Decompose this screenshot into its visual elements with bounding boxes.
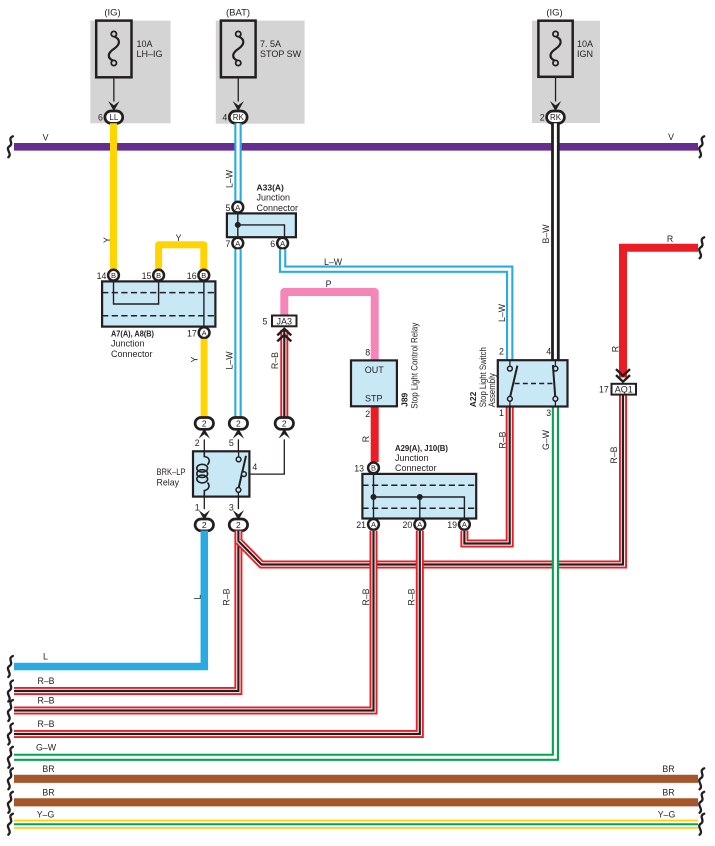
wire Y-G bus	[14, 820, 698, 829]
svg-text:R–B: R–B	[609, 446, 619, 463]
svg-text:B: B	[111, 271, 116, 280]
svg-text:JA3: JA3	[277, 316, 293, 326]
A22 mechanical link dashed	[515, 383, 554, 385]
svg-text:G–W: G–W	[541, 429, 551, 450]
arrow into pin4 oval	[279, 428, 290, 438]
svg-text:Y–G: Y–G	[37, 809, 55, 819]
chevron into AQ1	[616, 375, 630, 382]
fuse 10A IGN (IG)	[532, 21, 600, 123]
svg-text:(IG): (IG)	[104, 8, 120, 19]
squiggle R-B2 left	[8, 700, 13, 721]
svg-text:BR: BR	[42, 788, 54, 798]
svg-text:R–B: R–B	[37, 696, 54, 706]
svg-text:Stop Light Control Relay: Stop Light Control Relay	[410, 322, 420, 408]
node oval 2 (pin3 bottom)	[229, 519, 247, 531]
svg-text:A: A	[235, 239, 240, 248]
squiggle BR2 right	[699, 792, 704, 813]
connector AQ1 box	[612, 384, 637, 395]
svg-text:17: 17	[599, 385, 609, 395]
svg-text:1: 1	[195, 502, 200, 512]
svg-text:Assembly: Assembly	[487, 373, 497, 407]
svg-text:(IG): (IG)	[546, 8, 562, 19]
wire V bus (violet)	[14, 143, 698, 151]
svg-text:Y–G: Y–G	[658, 809, 676, 819]
svg-text:21: 21	[356, 520, 366, 530]
BRK-LP coil	[204, 451, 209, 465]
svg-text:3: 3	[546, 408, 551, 418]
svg-text:(BAT): (BAT)	[226, 8, 250, 19]
terminal 20(A) of A29	[414, 519, 425, 530]
svg-text:R–B: R–B	[270, 352, 280, 369]
wire P: JA3 to J89 pin 8	[284, 292, 374, 360]
svg-text:BRK–LP: BRK–LP	[157, 467, 186, 477]
A7/A8 internal dashed lines	[102, 292, 215, 294]
wire R: right bus to AQ1	[623, 248, 698, 378]
wire R: J89 STP to A29 13(B)	[371, 406, 379, 462]
svg-text:Y: Y	[102, 237, 112, 243]
svg-text:2: 2	[202, 419, 207, 429]
wire Y bridge 15(B) to 16(B)	[159, 245, 204, 270]
svg-text:14: 14	[97, 271, 107, 281]
wire Y: A8 17(A) to BRK-LP pin 2	[201, 339, 208, 418]
node oval 2 (pin4 top)	[275, 418, 293, 430]
wire R-B: A29 20(A) to bottom bus	[14, 531, 420, 734]
wire R-B: JA3 to BRK-LP pin 4 oval	[280, 330, 288, 418]
svg-text:Relay: Relay	[157, 478, 180, 488]
svg-text:A: A	[462, 520, 467, 529]
svg-text:R–B: R–B	[37, 676, 54, 686]
svg-text:2: 2	[540, 113, 545, 123]
terminal 16(B) of A7	[198, 270, 209, 281]
squiggle BR1 left	[8, 768, 13, 789]
svg-text:Junction: Junction	[395, 453, 429, 463]
svg-text:R–B: R–B	[498, 431, 508, 448]
junction connector A29(A),J10(B) box	[362, 474, 476, 519]
svg-text:19: 19	[447, 520, 457, 530]
svg-text:A33(A): A33(A)	[257, 183, 285, 193]
svg-text:8: 8	[365, 347, 370, 357]
wire pin1 to oval	[203, 497, 205, 510]
svg-text:L–W: L–W	[225, 351, 235, 370]
squiggle G-W left	[8, 747, 13, 768]
svg-text:A: A	[202, 329, 207, 338]
svg-text:Junction: Junction	[111, 339, 145, 349]
squiggle R-B3 left	[8, 724, 13, 745]
wire L-W: A33 6(A) to A22 pin 2	[283, 249, 510, 360]
svg-text:13: 13	[354, 464, 364, 474]
terminal 17(A) of A8	[199, 327, 210, 338]
svg-text:2: 2	[195, 438, 200, 448]
wire BR bus 2	[14, 798, 698, 806]
svg-text:Connector: Connector	[111, 349, 153, 359]
wire R-B: BRK-LP pin3 to bottom bus	[14, 531, 238, 691]
wire BR bus 1	[14, 775, 698, 783]
svg-text:L–W: L–W	[225, 169, 235, 188]
svg-text:Connector: Connector	[257, 203, 299, 213]
svg-text:10A: 10A	[577, 39, 593, 49]
terminal 15(B) of A7	[153, 270, 164, 281]
svg-text:R–B: R–B	[222, 588, 232, 605]
svg-text:L–W: L–W	[324, 257, 343, 267]
svg-text:2: 2	[365, 409, 370, 419]
connector JA3 box	[272, 316, 297, 327]
svg-text:V: V	[668, 132, 674, 142]
A29 internal bus	[373, 474, 375, 519]
svg-text:B: B	[371, 464, 376, 473]
squiggle V right	[699, 136, 704, 157]
svg-text:RK: RK	[233, 113, 245, 122]
wire B-W: fuse IGN to A22 pin 4	[551, 123, 560, 360]
svg-text:5: 5	[229, 438, 234, 448]
svg-text:5: 5	[225, 203, 230, 213]
svg-text:2: 2	[499, 346, 504, 356]
svg-text:A: A	[235, 203, 240, 212]
svg-text:L: L	[193, 594, 203, 599]
A7/A8 internal bus 16-17	[203, 281, 205, 326]
svg-text:R–B: R–B	[37, 719, 54, 729]
squiggle V left	[8, 136, 13, 157]
terminal 7(A) of A33	[232, 238, 243, 249]
A7/A8 internal bus 14-15	[114, 281, 159, 304]
relay BRK-LP box	[193, 451, 249, 496]
svg-text:B: B	[201, 271, 206, 280]
svg-text:LH–IG: LH–IG	[137, 49, 163, 59]
svg-text:Junction: Junction	[257, 193, 291, 203]
svg-text:Connector: Connector	[395, 463, 437, 473]
squiggle BR1 right	[699, 768, 704, 789]
svg-text:R–B: R–B	[361, 588, 371, 605]
svg-text:6: 6	[98, 113, 103, 123]
A33 internal bus	[237, 213, 239, 237]
wire pin3 to oval	[237, 497, 239, 510]
svg-text:1: 1	[499, 408, 504, 418]
node oval 2 (pin5 top)	[229, 418, 247, 430]
svg-text:Y: Y	[189, 356, 199, 362]
BRK-LP switch	[238, 451, 240, 457]
terminal 14(B) of A7	[108, 270, 119, 281]
svg-text:2: 2	[202, 520, 207, 530]
squiggle Y-G left	[8, 814, 13, 835]
svg-text:B–W: B–W	[541, 224, 551, 244]
svg-text:2: 2	[282, 419, 287, 429]
wire R-B: branch to AQ1	[238, 395, 623, 564]
arrow into pin2 oval	[199, 428, 210, 438]
svg-text:AQ1: AQ1	[615, 385, 633, 395]
svg-text:BR: BR	[662, 788, 674, 798]
svg-text:STOP SW: STOP SW	[260, 49, 302, 59]
A22 left switch	[509, 360, 511, 366]
svg-text:L–W: L–W	[497, 303, 507, 322]
svg-text:4: 4	[222, 113, 227, 123]
squiggle R-B1 left	[8, 681, 13, 702]
svg-text:OUT: OUT	[365, 365, 385, 375]
svg-text:Y: Y	[176, 233, 182, 243]
svg-text:10A: 10A	[137, 39, 153, 49]
wire Y: fuse LH-IG to A7 14(B)	[110, 123, 117, 269]
terminal 21(A) of A29	[368, 519, 379, 530]
wire L-W: fuse STOP SW to A33 5(A)	[234, 123, 241, 201]
svg-text:20: 20	[403, 520, 413, 530]
svg-text:16: 16	[187, 271, 197, 281]
svg-text:2: 2	[236, 419, 241, 429]
svg-text:2: 2	[236, 520, 241, 530]
svg-text:17: 17	[187, 328, 197, 338]
fuse 10A LH-IG (IG)	[90, 21, 170, 124]
terminal 13(B) of A29	[368, 463, 379, 474]
svg-text:R: R	[667, 234, 673, 244]
svg-text:A: A	[280, 239, 285, 248]
svg-text:L: L	[43, 652, 48, 662]
svg-text:R: R	[361, 436, 371, 442]
terminal 6(A) of A33	[277, 238, 288, 249]
wire G-W: A22 pin3 to bottom bus	[14, 407, 555, 758]
node oval 2 (pin2 top)	[195, 418, 213, 430]
A29 internal dashed lines	[362, 484, 476, 486]
svg-text:G–W: G–W	[36, 743, 57, 753]
svg-text:B: B	[156, 271, 161, 280]
svg-text:15: 15	[142, 271, 152, 281]
svg-text:RK: RK	[550, 113, 562, 122]
svg-text:A: A	[417, 520, 422, 529]
A22 right switch	[554, 360, 556, 366]
svg-text:7: 7	[225, 239, 230, 249]
svg-text:5: 5	[262, 316, 267, 326]
svg-text:BR: BR	[662, 764, 674, 774]
svg-text:R–B: R–B	[407, 588, 417, 605]
svg-text:V: V	[43, 133, 49, 143]
svg-text:3: 3	[229, 502, 234, 512]
svg-text:P: P	[326, 279, 332, 289]
wire L: BRK-LP pin1 to bottom bus	[14, 531, 204, 667]
wire R-B: A29 21(A) to bottom bus	[14, 531, 374, 711]
svg-text:6: 6	[270, 239, 275, 249]
switch assembly A22 box	[498, 360, 568, 406]
svg-text:BR: BR	[42, 764, 54, 774]
svg-text:A7(A), A8(B): A7(A), A8(B)	[111, 329, 154, 339]
wire L-W: A33 7(A) to BRK-LP pin 5	[234, 249, 241, 418]
squiggle R right	[699, 237, 704, 258]
svg-text:J89: J89	[399, 392, 409, 406]
fuse 7.5A STOP SW (BAT)	[216, 21, 305, 124]
node oval 2 (pin1 bottom)	[195, 519, 213, 531]
terminal 5(A) of A33	[232, 202, 243, 213]
squiggle BR2 left	[8, 792, 13, 813]
svg-text:7. 5A: 7. 5A	[260, 39, 281, 49]
chevron into JA3	[277, 329, 291, 336]
arrow into pin5 oval	[233, 428, 244, 438]
svg-text:4: 4	[546, 346, 551, 356]
svg-text:STP: STP	[365, 394, 383, 404]
svg-text:A: A	[371, 520, 376, 529]
terminal 19(A) of A29	[459, 519, 470, 530]
svg-text:4: 4	[252, 462, 257, 472]
svg-text:IGN: IGN	[577, 49, 593, 59]
wire R-B: A22 pin1 to A29 19(A)	[464, 407, 509, 544]
svg-text:A22: A22	[468, 391, 478, 407]
squiggle L left	[8, 656, 13, 677]
relay J89 box	[351, 360, 397, 406]
svg-text:R: R	[611, 346, 621, 352]
squiggle Y-G right	[699, 814, 704, 835]
svg-text:LL: LL	[109, 113, 118, 122]
junction connector A33(A) box	[227, 213, 296, 237]
junction connector A7(A),A8(B) box	[102, 281, 215, 326]
svg-text:A29(A), J10(B): A29(A), J10(B)	[395, 443, 448, 453]
